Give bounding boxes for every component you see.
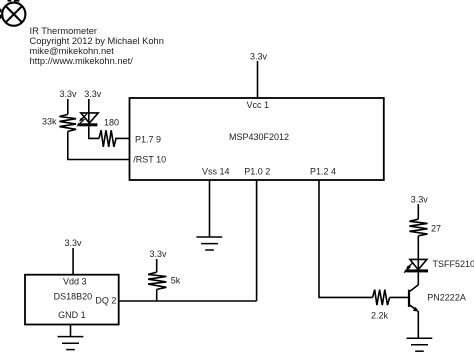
wire 3.3v to Vdd bbox=[72, 248, 74, 275]
svg-text:P1.7 9: P1.7 9 bbox=[135, 134, 161, 144]
wire emitter to ground bbox=[417, 311, 419, 338]
svg-text:TSFF5210: TSFF5210 bbox=[433, 259, 474, 269]
wire 180 to P1.7 bbox=[119, 137, 130, 139]
svg-text:GND 1: GND 1 bbox=[58, 310, 86, 320]
ground (Vss) bbox=[196, 237, 222, 250]
transistor Q1 PN2222A bbox=[409, 285, 466, 312]
wire 3.3v to 5k bbox=[156, 259, 158, 272]
svg-text:33k: 33k bbox=[42, 117, 57, 127]
resistor 5k bbox=[148, 272, 181, 289]
svg-text:Vcc 1: Vcc 1 bbox=[247, 100, 270, 110]
svg-text:Vss 14: Vss 14 bbox=[202, 166, 230, 176]
resistor 180 bbox=[99, 117, 119, 146]
resistor 33k bbox=[42, 114, 76, 131]
svg-text:3.3v: 3.3v bbox=[65, 238, 83, 248]
wire 3.3v to 27 bbox=[417, 204, 419, 219]
LED indicator (red) bbox=[77, 113, 99, 127]
svg-text:P1.2 4: P1.2 4 bbox=[310, 166, 336, 176]
ground (DS18B20) bbox=[58, 337, 84, 350]
svg-text:Copyright 2012 by Michael Kohn: Copyright 2012 by Michael Kohn bbox=[30, 36, 164, 46]
wire Vss to ground bbox=[209, 180, 211, 237]
wire GND to ground bbox=[70, 325, 72, 337]
wire DQ bus bbox=[119, 300, 257, 302]
svg-text:180: 180 bbox=[104, 117, 119, 127]
wire 3.3v to 33k bbox=[67, 99, 69, 114]
wire 27 to IR LED bbox=[417, 236, 419, 270]
svg-text:/RST 10: /RST 10 bbox=[133, 155, 166, 165]
resistor 2.2k bbox=[371, 290, 390, 321]
svg-text:PN2222A: PN2222A bbox=[427, 293, 466, 303]
svg-text:5k: 5k bbox=[171, 276, 181, 286]
LED TSFF5210 bbox=[404, 259, 474, 273]
title text bbox=[30, 26, 164, 66]
wire 33k to /RST bbox=[68, 131, 130, 159]
svg-text:3.3v: 3.3v bbox=[60, 89, 78, 99]
svg-text:3.3v: 3.3v bbox=[150, 249, 168, 259]
IC U2 DS18B20 bbox=[25, 275, 119, 325]
svg-text:27: 27 bbox=[431, 223, 441, 233]
svg-text:P1.0 2: P1.0 2 bbox=[244, 166, 270, 176]
wire 3.3v to LED bbox=[88, 99, 90, 124]
lamp logo bbox=[2, 3, 25, 26]
svg-text:3.3v: 3.3v bbox=[84, 89, 102, 99]
svg-text:2.2k: 2.2k bbox=[371, 311, 389, 321]
wire 2.2k to base bbox=[390, 296, 409, 298]
wire LED to 180 bbox=[89, 126, 99, 138]
svg-text:DQ 2: DQ 2 bbox=[95, 296, 116, 306]
svg-text:3.3v: 3.3v bbox=[250, 52, 268, 62]
wire 5k to DQ bus bbox=[156, 289, 158, 301]
svg-text:Vdd 3: Vdd 3 bbox=[63, 276, 87, 286]
wire IR LED to collector bbox=[417, 272, 419, 284]
svg-text:mike@mikekohn.net: mike@mikekohn.net bbox=[30, 46, 115, 56]
svg-text:http://www.mikekohn.net/: http://www.mikekohn.net/ bbox=[30, 56, 134, 66]
svg-text:MSP430F2012: MSP430F2012 bbox=[229, 132, 289, 142]
svg-text:IR Thermometer: IR Thermometer bbox=[30, 26, 98, 36]
wire P1.2 to 2.2k bbox=[319, 180, 373, 297]
ground (emitter) bbox=[407, 338, 433, 351]
svg-text:DS18B20: DS18B20 bbox=[54, 291, 93, 301]
wire P1.0 down bbox=[256, 180, 258, 301]
IC U1 MSP430F2012 bbox=[130, 98, 384, 180]
resistor 27 bbox=[409, 219, 441, 236]
wire 3.3v to Vcc pin bbox=[257, 61, 259, 98]
svg-text:3.3v: 3.3v bbox=[411, 194, 429, 204]
